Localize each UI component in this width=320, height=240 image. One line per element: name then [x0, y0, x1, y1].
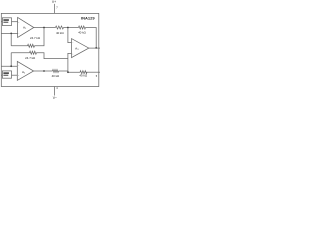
svg-text:24.7 kΩ: 24.7 kΩ [30, 36, 41, 40]
protection box 2 text Protection [3, 75, 8, 76]
protection box 1 text Over-Voltage [3, 19, 8, 21]
op-amp A1 [18, 17, 34, 37]
svg-text:40 kΩ: 40 kΩ [56, 31, 64, 35]
wire V+ supply [54, 4, 56, 14]
svg-text:−: − [18, 65, 20, 67]
wire to resistor R2 [11, 52, 29, 54]
svg-text:+: + [18, 22, 20, 24]
op-amp A3 [72, 39, 89, 58]
wire resistor R4 to output node [86, 28, 97, 48]
svg-text:−: − [18, 33, 20, 35]
svg-text:+: + [72, 53, 74, 55]
wire A3 inverting input [68, 28, 72, 43]
junction node A2 inverting [10, 65, 12, 67]
svg-text:INA129: INA129 [81, 15, 95, 20]
svg-text:A₂: A₂ [22, 70, 26, 74]
junction node A3 noninverting [67, 71, 69, 73]
op-amp A2 [17, 61, 33, 80]
svg-text:−: − [72, 43, 74, 45]
junction node A1 inverting [10, 33, 12, 35]
svg-text:A₃: A₃ [75, 47, 79, 51]
over-voltage protection box (bottom input) [2, 71, 11, 78]
svg-text:7: 7 [56, 6, 58, 10]
wire A1 output [34, 27, 56, 29]
wire A1 inverting input to RG pin 1 [1, 32, 17, 34]
wire vertical node to feedback resistor R2 [10, 53, 12, 66]
wire input pin 2 to protection box [1, 21, 2, 23]
IC boundary box INA129 [1, 13, 99, 86]
wire A3 noninverting input [68, 53, 72, 72]
wire protection box to A1 noninverting input [12, 21, 18, 23]
wire resistor R1 to A1 output node [35, 28, 45, 46]
wire vertical from node to feedback resistor R1 [10, 33, 12, 45]
resistor R6 40k to Ref [80, 71, 87, 74]
svg-text:40 kΩ: 40 kΩ [78, 30, 86, 34]
resistor R4 40k feedback A3 [79, 26, 86, 29]
wire resistor R6 to Ref pin 5 [86, 71, 101, 73]
svg-text:5: 5 [96, 75, 98, 78]
wire to resistor R1 [11, 45, 27, 47]
svg-text:V+: V+ [52, 0, 56, 4]
wire V- supply [54, 87, 56, 96]
wire protection box to A2 noninverting input [12, 74, 18, 76]
wire node to resistor R4 [64, 27, 79, 29]
junction node A3 inverting [67, 27, 69, 29]
wire A2 output [34, 70, 53, 72]
wire A2 inverting input to RG pin 8 [1, 65, 17, 67]
svg-text:A₁: A₁ [23, 26, 26, 30]
svg-text:V−: V− [53, 96, 57, 100]
wire input pin 3 to protection box [1, 74, 2, 76]
junction node A1 output [43, 27, 45, 29]
svg-text:40 kΩ: 40 kΩ [52, 74, 60, 78]
svg-text:40 kΩ: 40 kΩ [79, 73, 87, 77]
svg-text:+: + [18, 75, 20, 77]
wire resistor R2 to A2 output jog [37, 53, 68, 59]
wire A3 output to pin 6 [89, 47, 100, 49]
protection box 1 text Protection [3, 22, 8, 23]
wire node to resistor R6 [59, 71, 81, 72]
resistor R5 40k (A2 output to A3) [53, 70, 59, 73]
junction node A2 output [43, 70, 45, 72]
junction node A3 output [95, 47, 97, 49]
protection box 2 text Over-Voltage [3, 72, 8, 74]
over-voltage protection box (top input) [2, 18, 11, 26]
resistor R2 24.7k feedback A2 [30, 51, 37, 54]
resistor R1 24.7k feedback A1 [28, 44, 35, 47]
resistor R3 40k (A1 output to A3) [56, 26, 64, 29]
svg-text:24.7 kΩ: 24.7 kΩ [25, 56, 36, 60]
